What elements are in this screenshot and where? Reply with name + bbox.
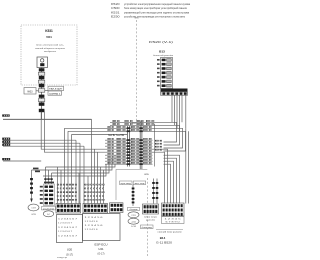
inline connector chain C1 [38, 68, 44, 120]
left bus wire 2 [2, 141, 80, 144]
connector B cells [83, 204, 108, 214]
svg-text:блок электронной сис-: блок электронной сис- [36, 44, 64, 47]
svg-text:U21: U21 [98, 247, 104, 251]
svg-text:1 2 3 4 5 6: 1 2 3 4 5 6 [85, 229, 98, 231]
svg-text:блок верх: блок верх [144, 217, 157, 219]
svg-text:J-C05: J-C05 [131, 226, 137, 228]
connector B2 cells (small block) [110, 203, 124, 213]
svg-text:(G-17): (G-17) [98, 252, 105, 255]
ECU box U21 (ESP ECU) [83, 214, 121, 256]
splice J-C06 [128, 207, 140, 228]
connector grid bottom right small [143, 204, 159, 222]
svg-text:1 2 3 4 5 6 7: 1 2 3 4 5 6 7 [58, 235, 77, 237]
svg-text:1 2 3 4 5: 1 2 3 4 5 [165, 219, 181, 221]
wire labels chain right-center [152, 179, 158, 204]
left bus wire 3 [2, 144, 84, 147]
svg-text:1 2 3 4 5 6: 1 2 3 4 5 6 [85, 225, 103, 227]
svg-text:нижний блок разъём: нижний блок разъём [158, 230, 183, 233]
connector group B wire labels [84, 184, 104, 201]
svg-text:зел сер: зел сер [134, 183, 144, 185]
svg-text:B14: B14 [160, 236, 166, 240]
svg-text:VO1: VO1 [46, 35, 52, 39]
svg-text:B13: B13 [159, 50, 165, 54]
svg-text:K531: K531 [111, 11, 121, 14]
splice wire center [132, 185, 135, 207]
harness boundary dashed upper [134, 18, 139, 126]
svg-text:W03: W03 [27, 90, 33, 93]
svg-text:блок зад: блок зад [142, 227, 153, 229]
svg-text:след.стр: след.стр [57, 257, 67, 259]
connector W03 [24, 88, 39, 94]
legend note lines [111, 3, 191, 19]
wire node B305 horizontal [2, 114, 91, 119]
svg-text:устройство электроуправления п: устройство электроуправления передней па… [124, 3, 191, 6]
svg-text:выброса: выброса [44, 51, 57, 53]
svg-text:1 2 3 4 5 6 7: 1 2 3 4 5 6 7 [58, 231, 72, 233]
connector A cells [56, 204, 81, 214]
connector B13 [153, 50, 188, 96]
svg-text:G7B: G7B [31, 214, 36, 216]
svg-text:(G-17): (G-17) [66, 253, 73, 256]
svg-text:разъём: разъём [146, 220, 156, 222]
svg-text:блок коммутации электросборки: блок коммутации электросборки узла прибо… [124, 7, 188, 10]
label K520 [149, 40, 173, 44]
svg-text:про вод: про вод [121, 183, 132, 185]
label box bus name [45, 86, 64, 95]
svg-text:1 2 3 4 5 6 7: 1 2 3 4 5 6 7 [58, 219, 77, 221]
inline connector W05 stack [105, 120, 162, 169]
splice G7B [28, 204, 39, 216]
svg-text:W05: W05 [144, 174, 149, 176]
wire drops right side [153, 128, 186, 203]
svg-text:6 7 8 9 0: 6 7 8 9 0 [166, 222, 180, 224]
svg-text:ШИНА 1: ШИНА 1 [49, 92, 61, 95]
svg-text:K520 (V-1): K520 (V-1) [149, 40, 173, 44]
svg-text:блок: блок [130, 209, 138, 211]
svg-text:ЕАЯ-В ЩИТ: ЕАЯ-В ЩИТ [49, 88, 63, 91]
harness branch box [116, 170, 150, 201]
connector column with pins [40, 182, 56, 217]
svg-text:U20: U20 [67, 247, 73, 251]
connector box K531 (dashed) [21, 25, 77, 85]
svg-text:J-C0: J-C0 [131, 221, 136, 223]
splice wire with markers [30, 170, 33, 203]
svg-text:1 2 3 4 5 6 7: 1 2 3 4 5 6 7 [58, 227, 77, 229]
wire bundle from B13 [153, 95, 189, 203]
connector group A wire labels [57, 184, 77, 201]
ECU box U20 [57, 215, 83, 260]
label strips center splice [120, 181, 146, 185]
svg-text:J-C: J-C [47, 214, 51, 216]
harness boundary dashed lower [147, 178, 149, 257]
wire pair from chain to stack rows [41, 111, 105, 153]
wire corner down to row [92, 119, 128, 203]
left bus wire 1 [2, 138, 76, 141]
component symbol A1 (sensor in K531) [37, 57, 48, 68]
wire band to connector group A [32, 135, 116, 204]
svg-text:темной обороны контроля: темной обороны контроля [35, 47, 65, 50]
wire fan to connector group B [65, 128, 106, 203]
svg-text:блочный разъём: блочный разъём [153, 54, 174, 57]
svg-text:G-11 B520: G-11 B520 [156, 243, 173, 245]
left bus wire 4 [2, 158, 41, 161]
svg-text:управляющий узел выхода цепи з: управляющий узел выхода цепи заднего отс… [124, 11, 190, 14]
svg-text:K520: K520 [111, 3, 121, 6]
svg-text:1 2 3 4 5 6 7: 1 2 3 4 5 6 7 [58, 223, 72, 225]
svg-text:1 2 3 4 5 6: 1 2 3 4 5 6 [85, 217, 103, 219]
svg-text:K531: K531 [45, 29, 53, 33]
svg-text:C500: C500 [111, 7, 120, 10]
svg-text:1 2 3 4 5 6: 1 2 3 4 5 6 [85, 221, 98, 223]
label B14 [141, 225, 184, 245]
svg-text:E250: E250 [111, 16, 121, 19]
svg-text:разъём: разъём [43, 208, 55, 210]
svg-text:устройство электропривода сети: устройство электропривода сети моторного… [124, 16, 186, 19]
connector B14 cells [162, 203, 185, 224]
